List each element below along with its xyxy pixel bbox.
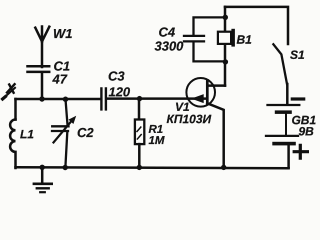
- switch S1: [273, 44, 287, 84]
- svg-text:S1: S1: [290, 48, 305, 62]
- capacitor C3: [101, 88, 106, 109]
- resistor R1: [138, 99, 141, 120]
- earphone B1: [218, 32, 231, 44]
- svg-text:1M: 1M: [148, 135, 164, 147]
- capacitor C4 branch: [184, 17, 225, 61]
- battery plate long 1: [268, 104, 300, 106]
- top rail wire: [225, 7, 288, 44]
- source lead: [207, 103, 223, 167]
- junction source-bottom: [221, 165, 226, 170]
- antenna W1: [35, 27, 49, 68]
- label X: [7, 84, 15, 93]
- svg-text:КП103И: КП103И: [166, 112, 211, 126]
- junction C1-top: [39, 96, 44, 101]
- battery plate short 2: [272, 142, 296, 146]
- svg-text:C3: C3: [108, 69, 125, 84]
- arrow of C2: [54, 120, 73, 143]
- svg-text:3300: 3300: [154, 39, 184, 54]
- battery plate long 2: [266, 135, 298, 137]
- wire gate node: [107, 97, 207, 100]
- wire to L1: [14, 99, 17, 120]
- svg-text:L1: L1: [20, 127, 34, 141]
- svg-text:120: 120: [108, 84, 130, 99]
- svg-text:C4: C4: [158, 25, 175, 40]
- gate arrow: [191, 94, 204, 103]
- junction ground: [40, 165, 45, 170]
- svg-text:9В: 9В: [298, 124, 314, 138]
- junction C2-top: [63, 97, 68, 102]
- bottom rail wire: [16, 167, 289, 168]
- drain lead: [207, 84, 225, 87]
- junction R1-top: [137, 96, 142, 101]
- battery GB1 minus sign: [292, 97, 303, 100]
- inductor L1: [10, 120, 15, 169]
- battery plate short 1: [275, 110, 292, 114]
- junction C4-top: [223, 15, 228, 20]
- right column wire above transistor: [224, 7, 227, 86]
- transistor channel: [206, 80, 209, 103]
- transistor V1 circle: [186, 78, 215, 107]
- ground: [41, 167, 44, 182]
- junction C4-bottom: [223, 59, 228, 64]
- junction R1-bottom: [137, 165, 142, 170]
- svg-text:47: 47: [51, 72, 67, 87]
- connector X1: [3, 88, 15, 99]
- svg-text:W1: W1: [53, 26, 73, 41]
- battery middle lead: [285, 114, 287, 135]
- capacitor C1: [28, 66, 50, 99]
- switch lower lead: [286, 84, 289, 105]
- wire top node: [16, 98, 101, 101]
- svg-text:B1: B1: [236, 33, 252, 47]
- junction C2-bottom: [62, 165, 67, 170]
- plus sign: [294, 145, 307, 158]
- battery lower lead: [287, 145, 290, 167]
- capacitor C2: [52, 99, 69, 167]
- svg-text:C2: C2: [77, 125, 94, 140]
